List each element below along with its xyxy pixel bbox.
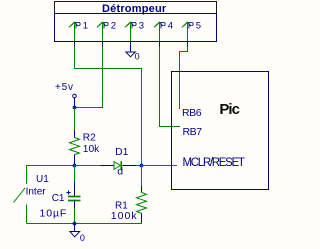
pin P4 stub bbox=[159, 42, 161, 47]
pin P1 arrow bbox=[69, 22, 78, 42]
svg-text:10µF: 10µF bbox=[40, 208, 68, 220]
wire P5 to RB6 bbox=[180, 47, 188, 110]
resistor R1 top lead bbox=[141, 186, 143, 193]
node G junction dot bbox=[73, 222, 77, 226]
resistor R1 zigzag bbox=[137, 193, 147, 214]
pin P1 stub bbox=[74, 42, 76, 47]
svg-text:R2: R2 bbox=[83, 132, 96, 143]
svg-text:100k: 100k bbox=[111, 210, 138, 222]
wire +5v node to R2 bbox=[74, 108, 76, 131]
capacitor C1 plus sign bbox=[67, 191, 71, 195]
pin P3 stub bbox=[130, 42, 132, 52]
resistor R2 zigzag bbox=[70, 138, 80, 155]
pin P5 stub bbox=[187, 42, 189, 47]
svg-text:MCLR/RESET: MCLR/RESET bbox=[183, 157, 245, 169]
svg-text:P4: P4 bbox=[160, 20, 175, 31]
pin P4 arrow bbox=[154, 22, 163, 42]
wire node D to MCLR bbox=[142, 165, 178, 167]
ground symbol bbox=[70, 232, 80, 237]
capacitor C1 bottom lead bbox=[74, 201, 76, 209]
svg-text:P2: P2 bbox=[103, 20, 118, 31]
node +5v junction dot bbox=[73, 106, 77, 110]
svg-text:RB6: RB6 bbox=[182, 107, 202, 119]
wire diode to node D bbox=[136, 165, 142, 167]
resistor R1 top wire bbox=[141, 166, 143, 187]
wire node A to diode bbox=[75, 165, 101, 167]
wire C1 to ground node bbox=[74, 209, 76, 224]
pin P2 stub bbox=[102, 42, 104, 47]
svg-text:Inter: Inter bbox=[26, 186, 47, 197]
capacitor C1 bottom plate bbox=[68, 200, 81, 202]
switch U1 blade bbox=[14, 188, 26, 203]
node A junction dot bbox=[73, 164, 77, 168]
+5v terminal circle bbox=[73, 94, 77, 98]
pin P2 arrow bbox=[97, 22, 106, 42]
resistor R2 top lead bbox=[74, 130, 76, 138]
diode D1 triangle bbox=[114, 162, 120, 170]
ground stub bbox=[74, 224, 76, 232]
svg-text:d: d bbox=[117, 166, 123, 178]
svg-text:P1: P1 bbox=[75, 20, 90, 31]
pin P3 arrow bbox=[125, 22, 134, 42]
resistor R2 bottom lead bbox=[74, 155, 76, 165]
wire P1 to node D bbox=[75, 47, 142, 166]
wire P4 to RB7 bbox=[160, 47, 181, 127]
svg-text:C1: C1 bbox=[52, 193, 65, 204]
svg-text:U1: U1 bbox=[36, 174, 49, 185]
wire bottom rail bbox=[27, 223, 142, 225]
connector pin box bbox=[55, 14, 217, 42]
+5v stub bbox=[74, 98, 76, 108]
svg-text:Pic: Pic bbox=[219, 101, 239, 118]
svg-text:0: 0 bbox=[80, 233, 85, 243]
svg-text:+5v: +5v bbox=[55, 82, 74, 93]
svg-text:D1: D1 bbox=[115, 147, 129, 158]
connector title box bbox=[55, 2, 217, 14]
diode D1 left lead bbox=[101, 165, 115, 167]
capacitor C1 top plate bbox=[68, 196, 81, 198]
wire switch to node A bbox=[27, 165, 75, 167]
diode D1 cathode bar bbox=[120, 161, 122, 170]
diode D1 right lead bbox=[122, 165, 136, 167]
ground at P3 bbox=[126, 52, 135, 57]
svg-text:P5: P5 bbox=[188, 20, 203, 31]
switch U1 bottom post bbox=[26, 205, 28, 224]
svg-text:10k: 10k bbox=[83, 144, 100, 155]
pin P5 arrow bbox=[182, 22, 191, 42]
resistor R1 bottom lead bbox=[141, 213, 143, 223]
Pic box bbox=[172, 72, 269, 190]
switch U1 top post bbox=[26, 165, 28, 184]
svg-text:RB7: RB7 bbox=[183, 126, 203, 138]
wire P2 to +5v node bbox=[75, 47, 103, 108]
node D junction dot bbox=[140, 164, 144, 168]
svg-text:0: 0 bbox=[135, 51, 140, 61]
capacitor C1 top lead bbox=[74, 182, 76, 197]
wire node A to C1 bbox=[74, 166, 76, 182]
svg-text:P3: P3 bbox=[131, 20, 146, 31]
